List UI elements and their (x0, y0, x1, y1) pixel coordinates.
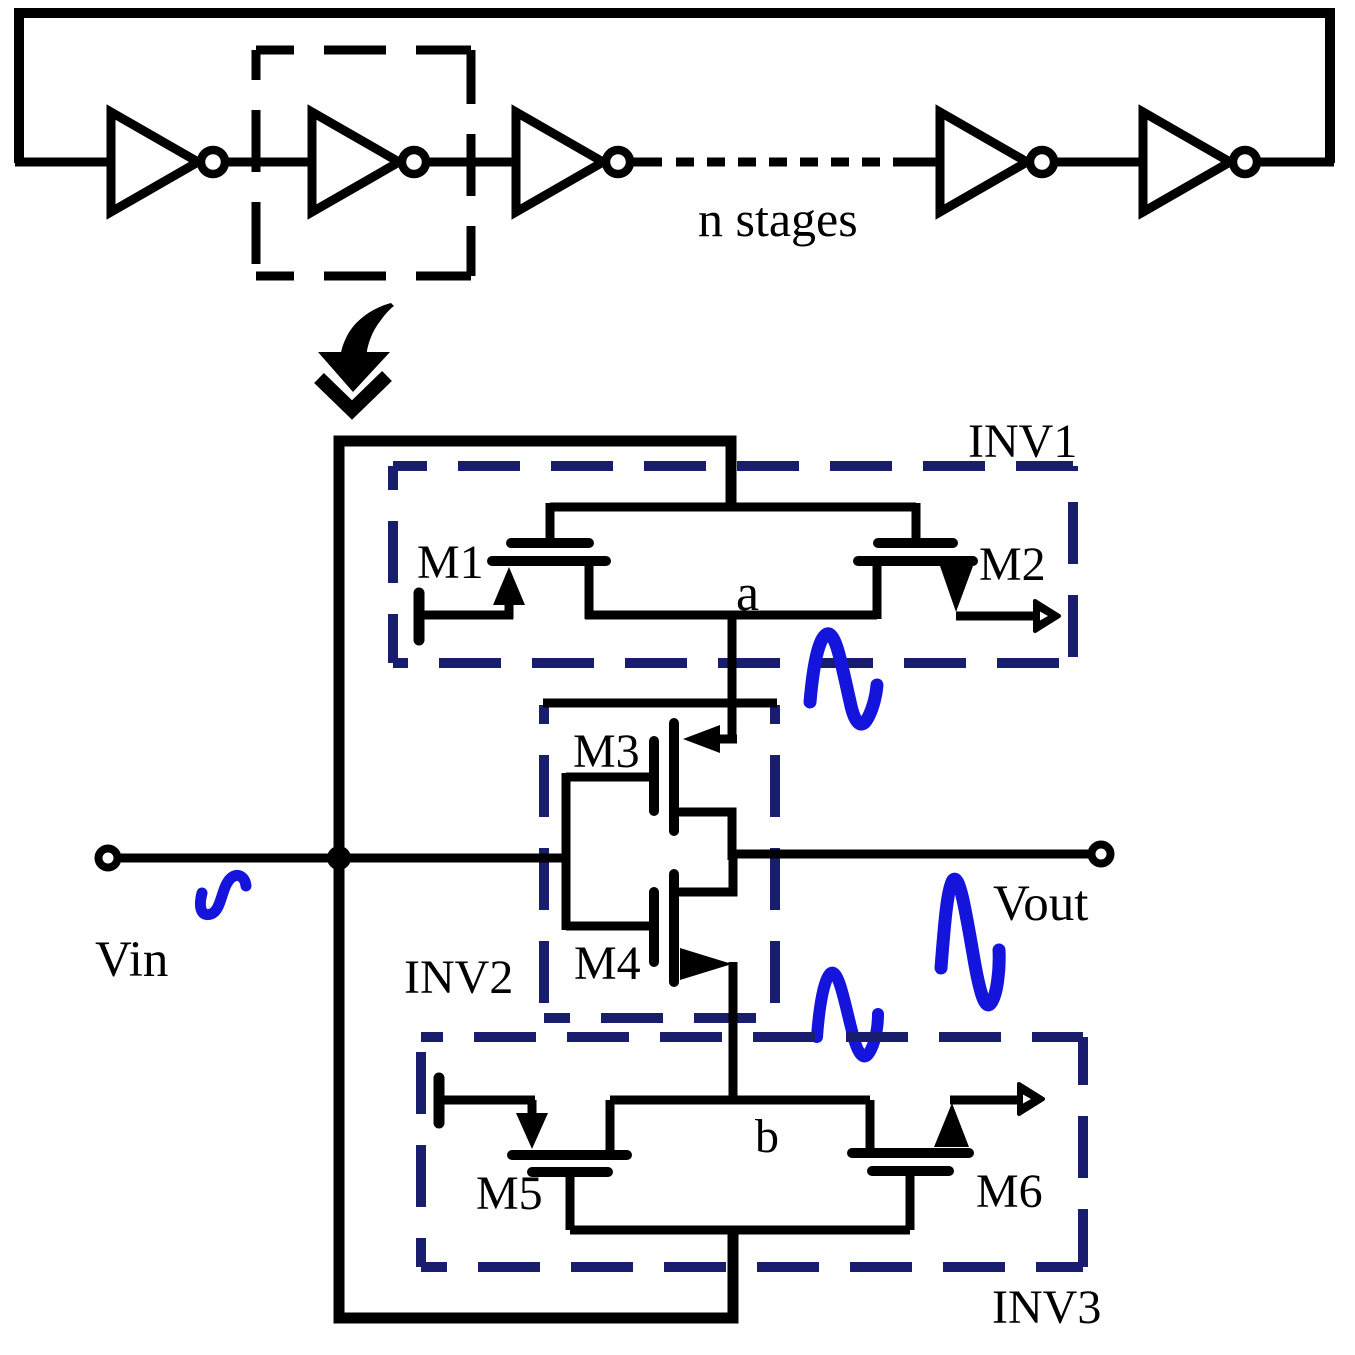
arrowhead M6 output (1019, 1084, 1043, 1114)
annotation arrow (hand-drawn, pointing down to detailed schematic) (318, 303, 394, 410)
svg-text:b: b (755, 1110, 779, 1163)
wire M3 gate (566, 773, 654, 782)
dashed box INV1 (393, 466, 1073, 663)
transistor M4 (654, 874, 732, 982)
terminal Vin (99, 849, 118, 868)
annotation sine at node b (817, 973, 878, 1057)
wire node a down to M3 (728, 615, 737, 741)
svg-text:M2: M2 (979, 538, 1046, 591)
wire M1 drain down (585, 561, 594, 619)
wire into inverter A4 (894, 158, 942, 167)
wire M2 gate stub (912, 503, 921, 543)
dashed box INV2 (544, 705, 775, 1018)
wire M3 drain tap (679, 812, 732, 860)
terminal bar M5 source (434, 1078, 445, 1123)
inverter A1 (111, 112, 198, 212)
bubble A2 (402, 150, 426, 174)
wire A1 to A2 (225, 158, 314, 167)
inverter A2 (312, 112, 399, 212)
wire dotted continuation (n stages) (676, 158, 894, 167)
terminal Vout (1092, 845, 1111, 864)
svg-text:M3: M3 (573, 725, 640, 778)
svg-text:Vin: Vin (95, 932, 168, 988)
wire Vout (732, 850, 1089, 859)
wire A5 to feedback (1257, 158, 1334, 167)
wire INV1 gate rail (550, 503, 916, 512)
svg-text:n stages: n stages (698, 191, 858, 247)
wire A2 to A3 (426, 158, 518, 167)
dashed highlight box around inverter A2 (256, 50, 471, 276)
terminal bar M1 source (414, 593, 425, 640)
wire M2 drain down (873, 561, 882, 619)
svg-text:Vout: Vout (993, 876, 1088, 932)
wire M6 gate stub (906, 1171, 915, 1230)
annotation large sine at Vout (941, 879, 999, 1005)
wire A4 to A5 (1054, 158, 1145, 167)
wire M4 drain tap (679, 852, 733, 892)
transistor M5 (512, 1100, 627, 1172)
svg-text:INV1: INV1 (968, 415, 1077, 468)
wire feedback rectangle (gate drive loop) (339, 441, 733, 1318)
svg-text:M4: M4 (574, 937, 641, 990)
wire M5 source (439, 1096, 535, 1105)
wire A3 out stub (630, 158, 662, 167)
svg-text:a: a (736, 565, 759, 622)
wire M6 drain up (866, 1100, 875, 1153)
wire M2 source out (956, 612, 1038, 621)
bubble A5 (1233, 150, 1257, 174)
annotation sine wave at node a (810, 634, 877, 724)
wire INV2 gate spine (562, 773, 571, 930)
wire M5 drain up (606, 1100, 615, 1155)
svg-text:M1: M1 (417, 536, 484, 589)
node a wire (585, 611, 877, 620)
wire M5 gate stub (566, 1172, 575, 1230)
svg-text:INV2: INV2 (404, 951, 513, 1004)
transistor M1 (492, 543, 606, 619)
wire M1 gate stub (546, 503, 555, 543)
svg-text:INV3: INV3 (992, 1281, 1101, 1334)
bubble A1 (201, 150, 225, 174)
svg-text:M5: M5 (476, 1167, 543, 1220)
wire M1 source (419, 611, 513, 620)
inverter A5 (1143, 112, 1230, 212)
inverter A3 (516, 112, 603, 212)
svg-text:M6: M6 (976, 1165, 1043, 1218)
wire INV2 top rail (black over box top) (543, 699, 777, 708)
wire input to inverter A1 (15, 158, 113, 167)
annotation small sine at Vin (200, 875, 246, 914)
dashed box INV3 (421, 1037, 1083, 1267)
wire Vin (121, 854, 566, 863)
wire M6 source out (950, 1096, 1022, 1105)
bubble A3 (606, 150, 630, 174)
transistor M6 (852, 1103, 969, 1171)
inverter A4 (940, 112, 1027, 212)
wire M4 source down to node b (729, 962, 738, 1104)
arrowhead M2 output (1035, 601, 1059, 631)
bubble A4 (1030, 150, 1054, 174)
wire M5/M6 gate rail (570, 1226, 910, 1235)
transistor M2 (858, 543, 973, 612)
transistor M3 (654, 723, 737, 831)
junction dot Vin node (327, 846, 351, 870)
wire feedback loop (top rail and side verticals) (19, 13, 1330, 163)
wire M4 gate (566, 922, 654, 931)
node b wire (610, 1096, 870, 1105)
